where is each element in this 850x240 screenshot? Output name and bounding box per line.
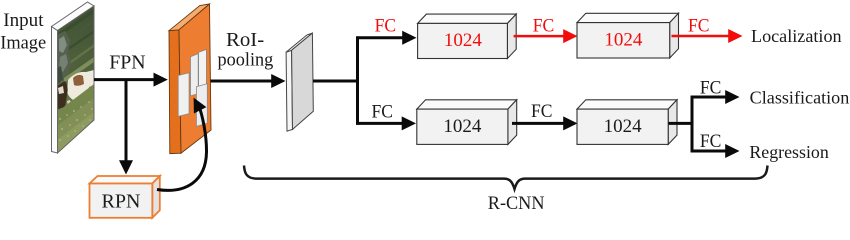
pooled feature slab: side face bbox=[286, 50, 292, 131]
arrow into fc1024 bottom box3 bbox=[356, 122, 403, 125]
arrow to Classification bbox=[691, 96, 727, 99]
svg-text:RoI-: RoI- bbox=[226, 29, 264, 51]
wire: pooled slab to split point bbox=[313, 80, 359, 83]
fc box U1 (1024 top-left): right face bbox=[507, 14, 516, 58]
svg-text:Regression: Regression bbox=[749, 142, 828, 162]
fc box U4 (1024 bottom-right): top face bbox=[577, 100, 677, 109]
fc box U1 (1024 top-left): top face bbox=[418, 14, 517, 23]
svg-text:Input: Input bbox=[3, 10, 44, 31]
svg-text:FC: FC bbox=[372, 102, 394, 123]
wire: vertical split right bbox=[691, 96, 694, 153]
RoI boxes on feature map bbox=[178, 73, 189, 117]
svg-text:FPN: FPN bbox=[109, 51, 145, 73]
svg-text:FC: FC bbox=[700, 131, 722, 152]
svg-text:Image: Image bbox=[0, 32, 46, 53]
red FC arrow box2 to Localization bbox=[672, 35, 731, 38]
fc box U3 (1024 bottom-left): top face bbox=[417, 100, 517, 109]
svg-text:FC: FC bbox=[700, 78, 722, 99]
svg-text:1024: 1024 bbox=[604, 30, 643, 51]
fc box U2 (1024 top-right): top face bbox=[577, 13, 679, 22]
fc box U2 (1024 top-right): front face bbox=[577, 23, 670, 58]
RPN box: front face bbox=[90, 184, 153, 218]
wire: vertical split bbox=[356, 36, 359, 124]
FPN feature slab: front face bbox=[179, 4, 211, 153]
svg-text:FC: FC bbox=[531, 101, 553, 122]
curved arrow RPN to feature slab bbox=[157, 107, 207, 191]
svg-text:pooling: pooling bbox=[218, 50, 274, 71]
FPN arrow (photo to orange slab) bbox=[94, 78, 156, 81]
FPN feature slab: side face bbox=[169, 30, 181, 154]
arrow into fc1024 top box1 bbox=[356, 36, 403, 39]
pooled feature slab: top face bbox=[286, 33, 312, 52]
R-CNN brace bbox=[244, 166, 768, 190]
fc box U2 (1024 top-right): right face bbox=[670, 13, 679, 58]
input image slab: top face bbox=[52, 2, 95, 31]
fc box U4 (1024 bottom-right): right face bbox=[668, 100, 677, 145]
arrowhead into RPN bbox=[119, 160, 133, 174]
svg-text:1024: 1024 bbox=[443, 116, 482, 137]
fc box U3 (1024 bottom-left): front face bbox=[417, 109, 508, 144]
svg-text:Localization: Localization bbox=[751, 26, 842, 46]
svg-text:R-CNN: R-CNN bbox=[488, 193, 545, 214]
pooled feature slab: front face bbox=[292, 33, 314, 129]
RPN box: right face bbox=[152, 176, 160, 218]
wire: box4 to split bbox=[669, 122, 694, 125]
FPN feature slab: top face bbox=[169, 4, 210, 31]
input image slab: side face bbox=[52, 27, 58, 154]
svg-text:FC: FC bbox=[533, 16, 555, 37]
wire: branch down from FPN arrow bbox=[125, 80, 128, 161]
fc box U3 (1024 bottom-left): right face bbox=[508, 100, 517, 145]
RoI-pooling arrow (orange slab to pooled features) bbox=[211, 80, 274, 83]
RPN box: top face bbox=[90, 176, 160, 184]
svg-text:RPN: RPN bbox=[102, 191, 141, 213]
red FC arrow box1 to box2 bbox=[514, 35, 566, 38]
svg-text:FC: FC bbox=[688, 16, 710, 37]
fc box U1 (1024 top-left): front face bbox=[418, 23, 508, 58]
svg-text:1024: 1024 bbox=[604, 116, 643, 137]
svg-text:Classification: Classification bbox=[750, 87, 850, 107]
arrow to Regression bbox=[691, 150, 727, 153]
svg-text:1024: 1024 bbox=[444, 30, 483, 51]
fc box U4 (1024 bottom-right): front face bbox=[577, 109, 668, 144]
black FC arrow box3 to box4 bbox=[512, 122, 566, 125]
svg-text:FC: FC bbox=[375, 16, 397, 37]
